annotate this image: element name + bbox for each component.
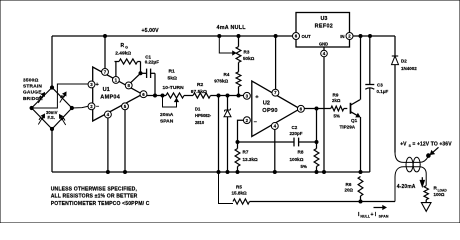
svg-text:F.S.: F.S. bbox=[48, 115, 55, 120]
wire U3 gnd stub bbox=[323, 47, 325, 50]
capacitor C1 bbox=[141, 69, 156, 78]
4-20mA arrow bbox=[420, 177, 424, 186]
pin 7 of U1 bbox=[102, 68, 109, 75]
label REF02 bbox=[315, 23, 334, 29]
svg-text:5kΩ: 5kΩ bbox=[168, 75, 177, 81]
wire R5 to R6 bottom bbox=[250, 201, 361, 203]
label IN bbox=[340, 34, 344, 39]
label OP90 bbox=[262, 108, 278, 114]
pin 3 of U1 bbox=[88, 81, 95, 88]
svg-text:REF02: REF02 bbox=[315, 23, 334, 29]
wire bridge supply drop bbox=[51, 36, 53, 87]
capacitor C2 bbox=[294, 138, 299, 147]
svg-text:SPAN: SPAN bbox=[379, 215, 389, 219]
wire U1 pin7 supply bbox=[104, 36, 106, 69]
svg-text:2.49kΩ: 2.49kΩ bbox=[115, 50, 131, 56]
label C1 value bbox=[145, 60, 160, 65]
pin 4 of U1 bbox=[104, 111, 111, 118]
wire junction to U1 pin8 bbox=[131, 73, 141, 82]
label 4mA NULL bbox=[217, 25, 247, 31]
svg-text:R8: R8 bbox=[298, 150, 304, 155]
wire R4 to node line bbox=[238, 87, 240, 96]
label C3 bbox=[377, 83, 389, 95]
svg-text:30mV: 30mV bbox=[46, 110, 58, 115]
R1 wiper arrow bbox=[175, 99, 179, 102]
svg-text:R4: R4 bbox=[224, 72, 230, 77]
node C1 output junction bbox=[154, 94, 157, 97]
resistor R9 2k bbox=[331, 106, 344, 111]
wire U2 pin4 to rail bbox=[274, 129, 276, 172]
svg-text:97.5kΩ: 97.5kΩ bbox=[191, 89, 207, 95]
Q1 emitter arrow bbox=[356, 114, 360, 117]
pin 6 of U3 bbox=[293, 33, 300, 40]
node R7 rail junction bbox=[236, 171, 239, 174]
wire REF02 IN rail bbox=[353, 35, 395, 37]
node A rail junction bbox=[217, 171, 220, 174]
diode D1 HP5082-2810 bbox=[224, 96, 231, 173]
pin 8 of U1 bbox=[125, 82, 132, 89]
node U1 pin4 rail junction bbox=[106, 171, 109, 174]
op-amp U2 OP90 triangle bbox=[252, 81, 300, 137]
svg-text:R2: R2 bbox=[197, 82, 204, 88]
wire U2 pin2 to feedback node bbox=[238, 120, 244, 142]
wire U2 output line bbox=[304, 108, 347, 110]
node bridge top vertex bbox=[50, 86, 53, 89]
svg-text:4-20mA: 4-20mA bbox=[397, 184, 416, 190]
svg-text:C3: C3 bbox=[377, 83, 383, 88]
svg-text:100kΩ: 100kΩ bbox=[290, 157, 304, 162]
wire bridge bottom to ground rail bbox=[51, 129, 53, 172]
label RG value 2.49k bbox=[115, 50, 131, 56]
svg-text:1N4002: 1N4002 bbox=[401, 66, 417, 71]
note unless otherwise specified bbox=[51, 187, 150, 207]
twisted pair symbol bbox=[406, 157, 420, 172]
label R3 bbox=[243, 50, 255, 61]
resistor R8 100k bbox=[314, 142, 319, 172]
label INULL + ISPAN bbox=[358, 212, 389, 219]
label U2 minus input bbox=[254, 119, 257, 125]
wire RG to C1 drop bbox=[140, 62, 142, 74]
wire ground rail bbox=[52, 171, 360, 173]
label D2 bbox=[401, 59, 417, 71]
svg-text:20mA: 20mA bbox=[160, 112, 174, 118]
+VS annotation arrow bbox=[430, 147, 438, 154]
node U2 output junction bbox=[315, 107, 318, 110]
potentiometer R1 5k 10-TURN bbox=[166, 93, 184, 98]
wire bridge left output bbox=[32, 84, 89, 108]
pin 6 of U1 bbox=[140, 91, 147, 98]
svg-text:–: – bbox=[254, 119, 257, 125]
node +VS terminal bbox=[427, 154, 431, 158]
wire U3 gnd to rail bbox=[323, 57, 325, 172]
label Q1 bbox=[351, 118, 358, 123]
wire loop bottom lead bbox=[395, 167, 426, 202]
pin 2 of U2 bbox=[243, 117, 250, 124]
node R4 bottom junction bbox=[237, 94, 240, 97]
svg-text:OP90: OP90 bbox=[262, 108, 278, 114]
ground bbox=[421, 200, 431, 212]
wire U1 output line bbox=[147, 95, 244, 97]
svg-text:C2: C2 bbox=[292, 125, 298, 130]
label R8 bbox=[290, 150, 307, 169]
label R2 bbox=[191, 82, 207, 95]
svg-text:976kΩ: 976kΩ bbox=[214, 78, 228, 83]
label +5.00V bbox=[142, 28, 160, 34]
wire loop top lead bbox=[395, 153, 428, 163]
wire R3 wiper bbox=[219, 36, 233, 53]
potentiometer R3 50k bbox=[236, 47, 241, 63]
label RG bbox=[121, 43, 129, 50]
node R6 bottom junction bbox=[359, 200, 362, 203]
label U2 plus input bbox=[255, 94, 259, 100]
node D1 rail junction bbox=[226, 171, 229, 174]
node C3 top junction bbox=[369, 35, 372, 38]
label TIP29A bbox=[340, 125, 356, 130]
label 4-20mA bbox=[397, 184, 416, 190]
svg-text:4mA NULL: 4mA NULL bbox=[217, 25, 247, 31]
node feedback right junction bbox=[315, 141, 318, 144]
label C2 bbox=[290, 125, 303, 136]
svg-text:R: R bbox=[121, 43, 125, 49]
resistor R4 976k bbox=[236, 72, 241, 87]
node R3 top junction bbox=[237, 35, 240, 38]
pin 3 of U2 bbox=[243, 92, 250, 99]
svg-text:10-TURN: 10-TURN bbox=[163, 85, 185, 91]
svg-text:+ I: + I bbox=[371, 212, 377, 218]
pin 4 of U2 bbox=[271, 123, 278, 130]
pin 6 of U2 bbox=[297, 105, 304, 112]
wire U1 pin5 to rail bbox=[124, 110, 126, 172]
svg-text:STRAIN: STRAIN bbox=[23, 84, 42, 90]
svg-text:= +12V TO +36V: = +12V TO +36V bbox=[412, 142, 452, 148]
svg-text:BRIDGE: BRIDGE bbox=[23, 96, 43, 102]
pin 5 of U1 bbox=[122, 103, 129, 110]
wire node A to R5 bbox=[219, 172, 234, 204]
svg-text:+: + bbox=[255, 94, 259, 100]
svg-text:20Ω: 20Ω bbox=[345, 188, 354, 193]
svg-text:GND: GND bbox=[319, 41, 328, 46]
label U2 bbox=[263, 101, 270, 107]
wire C3 bottom bbox=[361, 88, 370, 172]
current direction arrow bbox=[374, 206, 387, 210]
pin 7 of U2 bbox=[272, 89, 279, 96]
node D1 top junction bbox=[226, 94, 229, 97]
label RLOAD bbox=[434, 186, 448, 198]
svg-text:HP5082-: HP5082- bbox=[195, 113, 212, 118]
label 30mV F.S. bbox=[46, 110, 58, 120]
wire feedback line bbox=[238, 141, 317, 143]
node Q1 collector junction bbox=[359, 35, 362, 38]
label R4 bbox=[214, 72, 230, 83]
svg-text:Q1: Q1 bbox=[351, 118, 358, 123]
svg-text:G: G bbox=[125, 46, 128, 50]
label R5 bbox=[232, 184, 247, 195]
svg-text:POTENTIOMETER TEMPCO <50PPM/ C: POTENTIOMETER TEMPCO <50PPM/ C bbox=[51, 201, 150, 207]
svg-text:GAUGE: GAUGE bbox=[23, 90, 42, 96]
svg-text:5%: 5% bbox=[301, 164, 307, 169]
voltage reference U3 REF02 box bbox=[296, 13, 350, 48]
node R1 wiper loop junction bbox=[161, 94, 164, 97]
label 3500ohm strain gauge bridge bbox=[23, 78, 43, 102]
pin 1 of U1 bbox=[112, 76, 119, 83]
svg-text:AMP04: AMP04 bbox=[100, 94, 120, 100]
label R6 bbox=[345, 182, 354, 192]
resistor R5 bbox=[233, 199, 250, 204]
svg-text:OUT: OUT bbox=[302, 34, 311, 39]
label R9 bbox=[332, 92, 341, 118]
svg-text:3500Ω: 3500Ω bbox=[23, 78, 39, 84]
label U3 bbox=[320, 16, 327, 22]
node bridge left vertex bbox=[30, 106, 33, 109]
svg-text:0.22μF: 0.22μF bbox=[145, 60, 160, 65]
label +VS supply bbox=[400, 142, 452, 149]
svg-text:2810: 2810 bbox=[195, 120, 205, 125]
svg-text:R5: R5 bbox=[236, 184, 242, 189]
svg-text:R3: R3 bbox=[244, 50, 250, 55]
strain gauge element top-left bbox=[38, 93, 44, 103]
label U1 plus input bbox=[96, 82, 100, 88]
svg-text:220pF: 220pF bbox=[290, 131, 303, 136]
transistor Q1 TIP29A bbox=[351, 36, 361, 172]
wire R3 top from rail bbox=[238, 36, 240, 47]
node feedback left junction bbox=[236, 141, 239, 144]
svg-text:U3: U3 bbox=[320, 16, 327, 22]
node U2 pin4 rail junction bbox=[273, 171, 276, 174]
node R3 wiper branch junction bbox=[218, 35, 221, 38]
label R1 bbox=[163, 69, 185, 91]
svg-text:R1: R1 bbox=[169, 69, 176, 75]
pin 2 of U1 bbox=[88, 103, 95, 110]
svg-text:R6: R6 bbox=[346, 182, 352, 187]
capacitor C3 bbox=[365, 36, 374, 89]
resistor R2 bbox=[193, 93, 211, 98]
node Q1 emitter rail junction bbox=[359, 171, 362, 174]
strain gauge element bottom-left bbox=[38, 114, 44, 124]
R3 wiper arrow bbox=[233, 51, 236, 55]
wire R6 bottom to loop bbox=[361, 201, 396, 203]
label C1 bbox=[145, 55, 151, 60]
label U1 minus input bbox=[96, 104, 99, 110]
wire bridge right output bbox=[72, 106, 88, 108]
svg-text:UNLESS OTHERWISE SPECIFIED,: UNLESS OTHERWISE SPECIFIED, bbox=[51, 187, 138, 193]
diode D2 1N4002 bbox=[392, 36, 399, 153]
svg-text:5%: 5% bbox=[334, 114, 340, 119]
svg-text:2kΩ: 2kΩ bbox=[332, 98, 341, 103]
svg-text:R7: R7 bbox=[243, 150, 249, 155]
svg-text:R9: R9 bbox=[333, 92, 339, 97]
svg-text:U2: U2 bbox=[263, 101, 270, 107]
label AMP04 bbox=[100, 94, 120, 100]
svg-text:50kΩ: 50kΩ bbox=[243, 56, 255, 61]
node RG C1 pin8 junction bbox=[139, 72, 142, 75]
wire U2 pin7 supply bbox=[275, 36, 277, 90]
node A junction on output line bbox=[217, 94, 220, 97]
svg-text:NULL: NULL bbox=[360, 215, 370, 219]
node R8 rail junction bbox=[315, 171, 318, 174]
wire R3 to R4 bbox=[238, 62, 240, 71]
label U1 bbox=[103, 87, 110, 93]
node bridge bottom vertex bbox=[50, 127, 53, 130]
label 20mA SPAN bbox=[160, 112, 174, 124]
svg-text:TIP29A: TIP29A bbox=[340, 125, 356, 130]
resistor R7 13.3k bbox=[235, 142, 240, 172]
node U1 pin5 rail junction bbox=[124, 171, 127, 174]
op-amp U1 AMP04 triangle bbox=[93, 67, 143, 121]
strain gauge bridge diamond bbox=[32, 88, 72, 130]
svg-text:100Ω: 100Ω bbox=[434, 192, 445, 197]
label D1 bbox=[195, 106, 212, 125]
node bridge right vertex bbox=[70, 106, 73, 109]
resistor RG bbox=[115, 59, 141, 64]
wire node A drop to rail bbox=[218, 96, 220, 173]
label OUT bbox=[302, 34, 311, 39]
pin 2 of U3 bbox=[346, 33, 353, 40]
node U1 pin7 junction bbox=[104, 35, 107, 38]
node U2 pin7 junction bbox=[274, 35, 277, 38]
svg-text:SPAN: SPAN bbox=[160, 118, 174, 124]
svg-text:D1: D1 bbox=[195, 106, 201, 111]
label GND bbox=[319, 41, 328, 46]
label R7 bbox=[243, 150, 258, 162]
resistor RLOAD 100 bbox=[424, 186, 428, 200]
wire +5.00V rail bbox=[52, 35, 293, 37]
resistor R6 20ohm bbox=[358, 177, 363, 202]
svg-text:U1: U1 bbox=[103, 87, 110, 93]
svg-text:+V: +V bbox=[400, 142, 407, 148]
svg-text:+5.00V: +5.00V bbox=[142, 28, 160, 34]
svg-text:IN: IN bbox=[340, 34, 344, 39]
svg-text:–: – bbox=[96, 104, 99, 110]
pin 4 of U3 bbox=[321, 50, 328, 57]
svg-text:0.1μF: 0.1μF bbox=[377, 89, 389, 94]
wire R1 wiper loop bbox=[163, 96, 177, 108]
svg-text:ALL RESISTORS ±1% OR BETTER: ALL RESISTORS ±1% OR BETTER bbox=[51, 194, 138, 200]
wire U1 pin4 to rail bbox=[107, 118, 109, 172]
strain gauge element top-right bbox=[60, 92, 66, 102]
wire U1 pin1 riser bbox=[115, 62, 117, 77]
svg-text:13.3kΩ: 13.3kΩ bbox=[243, 157, 258, 162]
node U3 gnd rail junction bbox=[323, 171, 326, 174]
svg-text:D2: D2 bbox=[401, 59, 407, 64]
svg-text:15.8kΩ: 15.8kΩ bbox=[232, 191, 247, 196]
wire C1 to output node bbox=[154, 73, 156, 95]
strain gauge element bottom-right bbox=[60, 115, 66, 125]
wire R8 to output node bbox=[316, 109, 318, 143]
